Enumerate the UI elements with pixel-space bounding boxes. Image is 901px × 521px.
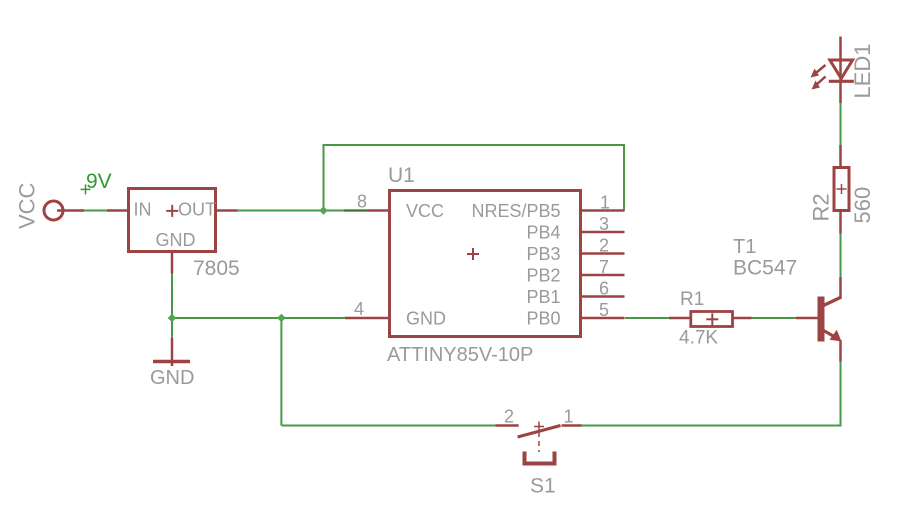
LED LED1 [811, 37, 876, 104]
svg-text:8: 8 [357, 192, 367, 212]
svg-text:1: 1 [600, 193, 610, 213]
pin 4 GND [345, 317, 389, 320]
svg-text:GND: GND [150, 367, 194, 389]
svg-text:VCC: VCC [15, 182, 40, 229]
pin 1 NRES/PB5 [581, 209, 625, 212]
svg-text:GND: GND [406, 308, 446, 328]
svg-text:2: 2 [504, 407, 514, 427]
pin 8 VCC [368, 209, 390, 212]
svg-text:5: 5 [599, 300, 609, 320]
svg-text:R2: R2 [809, 193, 834, 221]
wire net: emitter vertical [840, 362, 842, 427]
ground symbol GND [150, 338, 194, 389]
svg-text:VCC: VCC [406, 201, 444, 221]
junction at OUT net [319, 206, 328, 215]
svg-text:LED1: LED1 [850, 43, 875, 98]
wire net: R1 to T1 base [752, 317, 797, 319]
wire GND net: bottom rail to switch pin 2 [281, 425, 495, 427]
pin 7 PB2 [581, 274, 625, 277]
wire GND net: horizontal to U1 GND pin [172, 317, 345, 319]
pin 5 PB0 [581, 317, 625, 320]
junction at GND net mid [277, 314, 286, 323]
svg-text:U1: U1 [388, 164, 415, 187]
wire OUT net: down to U1 pin 1 [623, 145, 625, 211]
svg-text:3: 3 [599, 214, 609, 234]
resistor R2 [809, 145, 876, 234]
svg-text:PB3: PB3 [526, 244, 560, 264]
wire OUT net: top horizontal [323, 144, 626, 146]
switch S1 [495, 407, 582, 498]
wire GND net: down from junction to bottom rail [280, 318, 282, 426]
svg-text:R1: R1 [680, 289, 704, 310]
wire net: R2 bottom to collector [840, 234, 842, 279]
svg-text:T1: T1 [733, 236, 756, 258]
wire OUT net: up from junction [323, 145, 325, 211]
svg-text:GND: GND [156, 230, 196, 250]
pin 3 PB4 [581, 231, 625, 234]
svg-text:6: 6 [599, 279, 609, 299]
voltage regulator 7805 [107, 189, 240, 281]
supply symbol VCC [15, 182, 85, 229]
resistor R1 [669, 289, 752, 349]
svg-text:IN: IN [134, 200, 152, 220]
svg-text:PB2: PB2 [526, 265, 560, 285]
svg-text:S1: S1 [530, 475, 556, 498]
svg-text:PB4: PB4 [526, 222, 560, 242]
pin 2 PB3 [581, 252, 625, 255]
svg-text:4: 4 [354, 299, 364, 319]
pin 6 PB1 [581, 295, 625, 298]
svg-text:PB0: PB0 [526, 308, 560, 328]
net label 9V [81, 170, 112, 194]
wire GND net: 7805 GND down [171, 274, 173, 339]
svg-text:BC547: BC547 [733, 257, 797, 280]
svg-text:4.7K: 4.7K [679, 328, 718, 349]
wire net: U1 PB0 to R1 [625, 317, 669, 319]
wire net: LED cathode to R2 top [840, 103, 842, 145]
svg-text:7805: 7805 [193, 257, 240, 280]
svg-text:7: 7 [599, 257, 609, 277]
wire VCC net: circle to 7805 IN [84, 210, 107, 212]
wire net: switch pin 1 to emitter rail [582, 425, 842, 427]
wire OUT net overlap on pin 8 [344, 209, 368, 211]
svg-text:560: 560 [850, 187, 875, 224]
svg-text:9V: 9V [86, 170, 112, 193]
svg-text:2: 2 [599, 236, 609, 256]
svg-text:ATTINY85V-10P: ATTINY85V-10P [387, 344, 533, 366]
svg-text:NRES/PB5: NRES/PB5 [471, 201, 560, 221]
junction at GND net left [168, 314, 177, 323]
svg-text:PB1: PB1 [526, 287, 560, 307]
transistor T1 BC547 [733, 236, 842, 362]
svg-text:OUT: OUT [178, 200, 216, 220]
IC U1 ATTINY85V-10P [345, 164, 625, 366]
wire OUT net: 7805 OUT to U1 VCC pin [238, 210, 345, 212]
svg-text:1: 1 [564, 407, 574, 427]
